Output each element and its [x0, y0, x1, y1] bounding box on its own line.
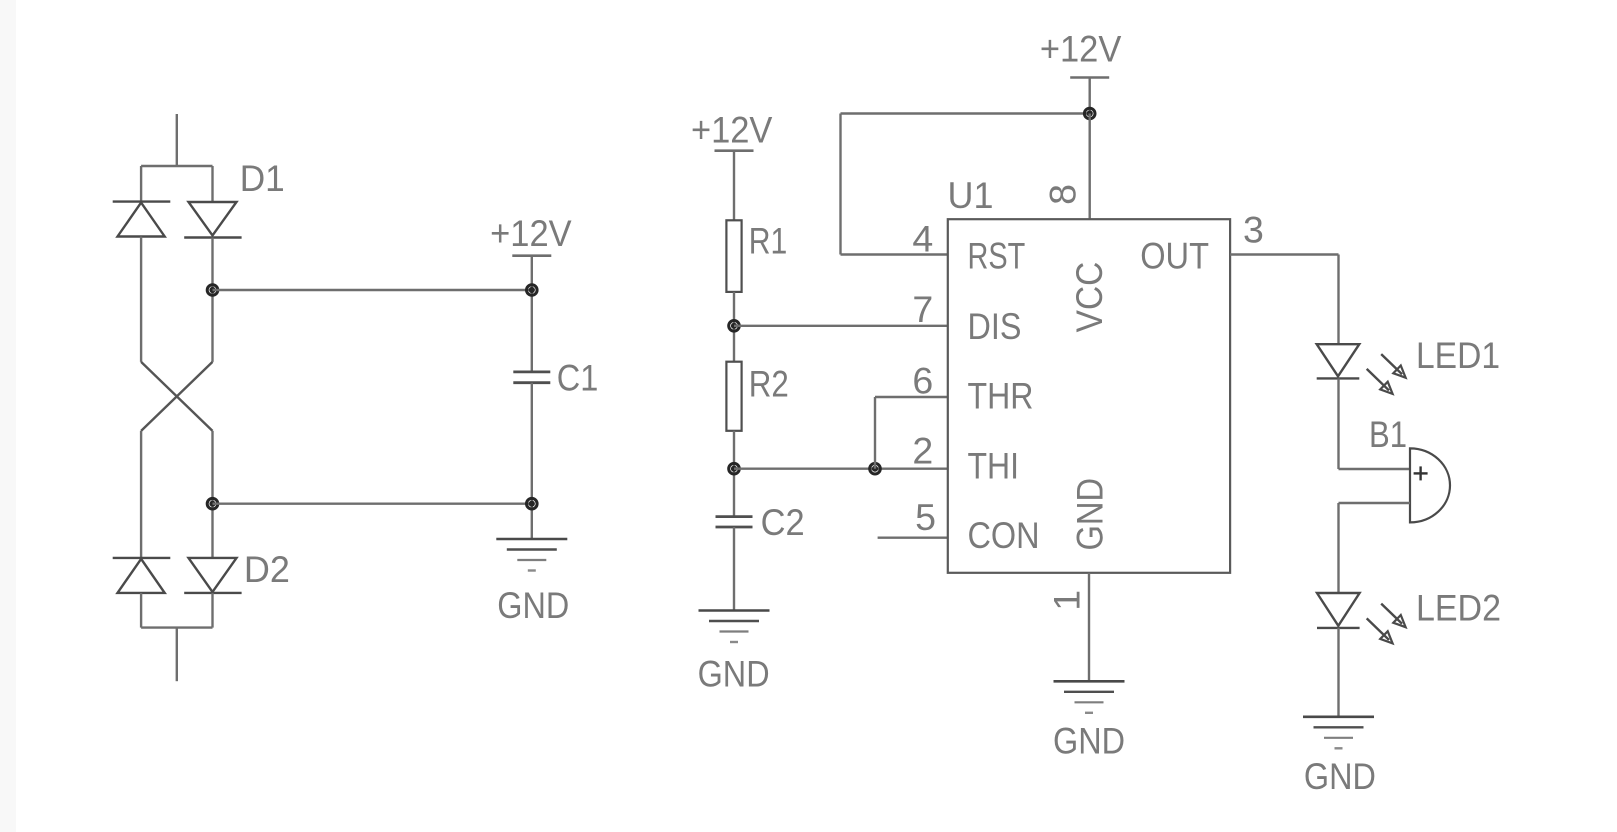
svg-text:LED1: LED1 — [1416, 334, 1500, 376]
svg-text:THR: THR — [968, 374, 1034, 416]
wire THR pin 6 — [875, 396, 948, 398]
wire right mid vertical — [211, 238, 213, 362]
diode D1 left (pointing up) — [113, 202, 171, 237]
wire left lower vertical — [140, 431, 142, 558]
wire right lower vertical — [211, 431, 213, 558]
wire from B1 negative terminal — [1339, 502, 1411, 504]
wire LED2 to ground — [1337, 628, 1339, 717]
svg-text:D2: D2 — [244, 548, 290, 590]
node junction THR tap — [870, 463, 881, 474]
wire top stub above D1 — [176, 114, 178, 166]
svg-text:+12V: +12V — [1040, 28, 1122, 70]
wire OUT pin 3 horizontal — [1230, 253, 1338, 255]
wire THR vertical — [874, 397, 876, 469]
node junction C1 bottom — [527, 498, 538, 509]
svg-text:GND: GND — [698, 653, 770, 695]
wire C1 to ground — [531, 383, 533, 539]
svg-text:C1: C1 — [557, 357, 599, 399]
svg-text:CON: CON — [968, 514, 1040, 556]
LED1 emission arrow 1 — [1377, 350, 1409, 381]
op-amp U1 body (555 timer) — [948, 219, 1230, 573]
buzzer B1 — [1410, 448, 1450, 522]
svg-text:RST: RST — [968, 234, 1026, 276]
svg-text:4: 4 — [912, 217, 933, 259]
node junction R1-R2-DIS — [729, 321, 740, 332]
svg-text:GND: GND — [1304, 755, 1376, 797]
wire +12V bar to node — [1088, 78, 1090, 114]
svg-text:8: 8 — [1042, 184, 1084, 205]
svg-text:R1: R1 — [749, 219, 788, 261]
wire right drop to D1 right diode — [211, 166, 213, 202]
wire left bottom vertical — [140, 593, 142, 628]
wire CON pin 5 stub — [878, 537, 948, 539]
resistor R2 — [726, 362, 741, 431]
wire left drop to D1 left diode — [140, 166, 142, 202]
wire to B1 positive terminal — [1339, 468, 1411, 470]
wire bottom stub below D2 — [176, 628, 178, 682]
svg-text:5: 5 — [915, 496, 936, 538]
diode D2 left (pointing up) — [113, 558, 171, 593]
wire D2 node to C1 bottom — [213, 503, 532, 505]
diode D2 right (pointing down) — [184, 558, 241, 593]
svg-text:1: 1 — [1046, 590, 1088, 611]
ground symbol at LED2 — [1303, 717, 1374, 749]
svg-text:OUT: OUT — [1140, 234, 1209, 276]
capacitor C1 — [513, 372, 550, 383]
wire OUT down to LED1 — [1337, 255, 1339, 345]
svg-text:THI: THI — [968, 444, 1020, 486]
wire top bar joining D1 anodes — [141, 165, 212, 167]
svg-text:6: 6 — [912, 359, 933, 401]
node junction R2-C2-THI — [729, 463, 740, 474]
node junction D2 input — [207, 498, 218, 509]
svg-text:LED2: LED2 — [1416, 586, 1501, 628]
wire crossing diagonal B — [141, 362, 212, 431]
B1 plus marking — [1414, 466, 1428, 480]
wire RST pin 4 horizontal — [841, 253, 948, 255]
wire right bottom vertical — [211, 593, 213, 628]
wire C2 to ground — [733, 527, 735, 611]
resistor R1 — [726, 220, 741, 292]
wire DIS pin 7 — [734, 325, 948, 327]
power +12V bar at C1 — [512, 254, 551, 257]
node junction +12V VCC — [1084, 108, 1095, 119]
svg-text:GND: GND — [1068, 478, 1110, 551]
wire THI pin 2 — [734, 468, 948, 470]
svg-text:R2: R2 — [749, 362, 789, 404]
wire D1 node to C1 top — [213, 289, 532, 291]
ground symbol at pin 1 — [1054, 681, 1125, 713]
svg-text:D1: D1 — [240, 157, 285, 199]
node junction D1 output — [207, 285, 218, 296]
wire +12V to C1 — [531, 256, 533, 372]
svg-text:B1: B1 — [1369, 413, 1407, 455]
svg-text:+12V: +12V — [691, 108, 773, 150]
power +12V bar at R1 — [715, 149, 754, 152]
LED2 emission arrow 1 — [1377, 600, 1409, 631]
LED1 emission arrow 2 — [1363, 365, 1396, 398]
ground symbol at C2 — [699, 611, 770, 643]
svg-text:+12V: +12V — [490, 212, 572, 254]
svg-text:GND: GND — [1053, 720, 1125, 762]
wire B1 to LED2 — [1337, 503, 1339, 593]
svg-text:GND: GND — [497, 584, 569, 626]
wire crossing diagonal A — [141, 362, 212, 431]
svg-text:2: 2 — [912, 430, 933, 472]
svg-text:7: 7 — [912, 288, 933, 330]
svg-text:3: 3 — [1243, 209, 1264, 251]
ground symbol at C1 — [496, 539, 567, 571]
svg-text:DIS: DIS — [968, 305, 1022, 347]
svg-text:U1: U1 — [948, 174, 994, 216]
wire VCC pin 8 — [1088, 114, 1090, 220]
wire LED1 to B1 top — [1337, 378, 1339, 469]
LED LED1 — [1317, 344, 1360, 378]
wire RST to +12V node — [841, 112, 1090, 114]
LED2 emission arrow 2 — [1363, 615, 1396, 648]
svg-text:VCC: VCC — [1068, 262, 1110, 333]
wire left mid vertical — [140, 237, 142, 362]
diode D1 right (pointing down) — [184, 202, 241, 238]
power +12V bar top — [1070, 76, 1109, 79]
svg-text:C2: C2 — [761, 501, 805, 543]
wire +12V to R1 — [733, 151, 735, 221]
capacitor C2 — [716, 517, 753, 527]
wire bottom bar joining D2 cathodes — [141, 626, 212, 628]
wire R2 to C2 — [733, 431, 735, 517]
LED LED2 — [1317, 593, 1360, 628]
wire RST vertical riser — [839, 114, 841, 255]
node junction C1 top — [527, 285, 538, 296]
wire GND pin 1 — [1088, 573, 1090, 682]
wire R1 to R2 — [733, 292, 735, 362]
